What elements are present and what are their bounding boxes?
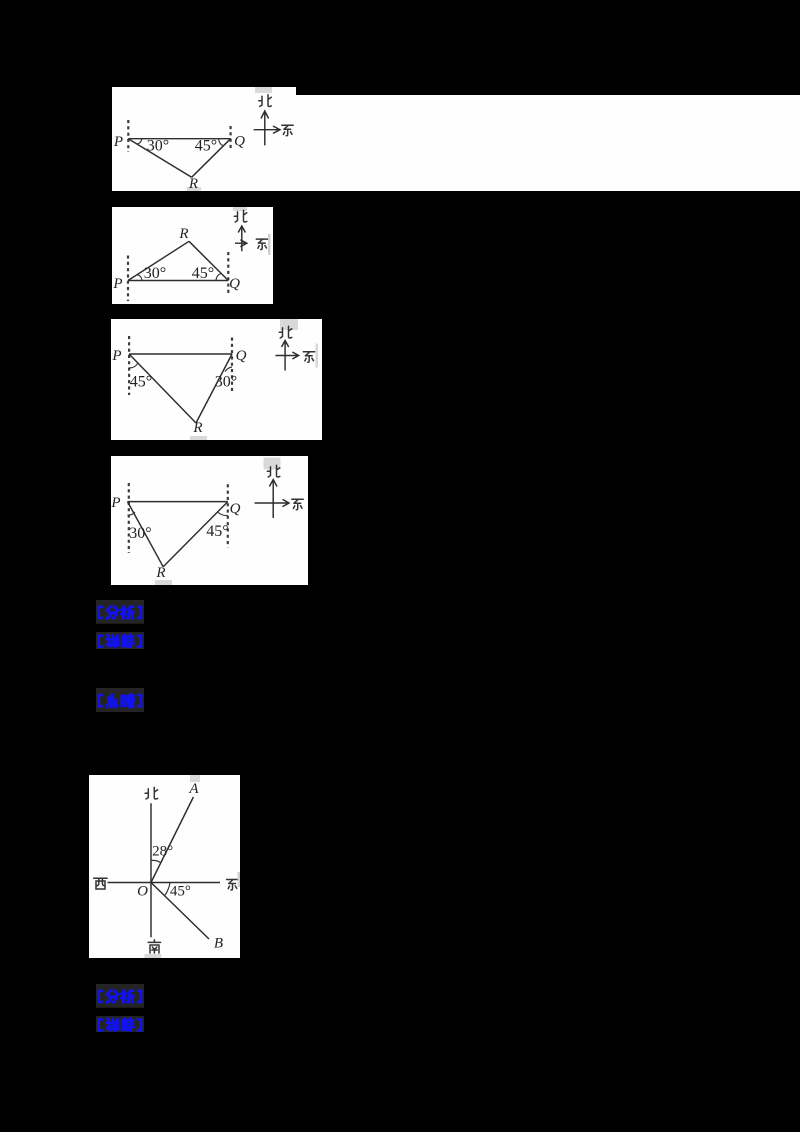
side PR bbox=[129, 354, 196, 423]
grey artifact above north glyph bbox=[255, 87, 272, 93]
side QR bbox=[196, 354, 232, 423]
grey edge artifact at box right bbox=[268, 234, 271, 255]
line PQ bbox=[129, 353, 232, 355]
svg-text:Q: Q bbox=[236, 348, 247, 364]
compass horizontal arrow bbox=[254, 126, 280, 133]
side PR bbox=[128, 502, 164, 567]
compass vertical arrow bbox=[282, 341, 289, 371]
dashed vertical at Q bbox=[231, 338, 233, 394]
dashed vertical at Q bbox=[230, 126, 232, 151]
angle arc at Q bbox=[225, 367, 232, 372]
compass horizontal arrow bbox=[235, 240, 247, 247]
side PR bbox=[128, 139, 191, 178]
side QR bbox=[163, 502, 228, 567]
dashed vertical at P bbox=[128, 336, 130, 395]
svg-text:P: P bbox=[111, 348, 121, 364]
blue tag 4 fenxi bbox=[96, 984, 144, 1008]
grey edge artifact right of east glyph bbox=[316, 344, 319, 368]
side QR bbox=[192, 139, 231, 178]
svg-text:R: R bbox=[188, 176, 198, 191]
grey edge artifact right of east glyph bbox=[237, 872, 240, 887]
svg-text:Q: Q bbox=[234, 134, 245, 150]
south glyph bbox=[148, 940, 160, 953]
figure 2 image box (triangle PQR, R above, 30/45) bbox=[112, 207, 273, 304]
svg-text:45°: 45° bbox=[192, 265, 214, 282]
svg-text:R: R bbox=[192, 420, 202, 436]
grey artifact above north glyph bbox=[280, 319, 298, 330]
compass east glyph bbox=[256, 239, 267, 249]
grey artifact under R bbox=[187, 187, 201, 191]
side PR bbox=[128, 241, 189, 280]
svg-text:45°: 45° bbox=[206, 523, 228, 540]
svg-text:45°: 45° bbox=[130, 374, 152, 391]
line PQ bbox=[128, 138, 230, 140]
svg-text:R: R bbox=[178, 226, 188, 242]
angle arc at P bbox=[137, 139, 142, 144]
angle arc at Q bbox=[219, 139, 224, 146]
line PQ bbox=[128, 501, 228, 503]
compass horizontal arrow bbox=[255, 499, 289, 506]
dashed vertical at P bbox=[128, 483, 130, 553]
grey artifact under nan glyph bbox=[144, 954, 161, 958]
svg-text:45°: 45° bbox=[195, 138, 217, 155]
figure 1 image box (triangle PQR, R below, 30/45) bbox=[112, 87, 296, 191]
figure 4 image box (triangle PQR, R below-left, 30/45) bbox=[111, 456, 308, 585]
grey artifact under R bbox=[155, 580, 172, 585]
axis horizontal (west-east) bbox=[107, 882, 220, 884]
dashed vertical at Q bbox=[227, 484, 229, 547]
svg-text:30°: 30° bbox=[144, 265, 166, 282]
compass vertical arrow bbox=[269, 480, 277, 519]
svg-text:B: B bbox=[213, 936, 222, 952]
grey artifact above north glyph bbox=[233, 207, 247, 211]
east glyph bbox=[226, 880, 237, 890]
blue tag 3 dianjing bbox=[96, 688, 144, 712]
compass north glyph bbox=[259, 95, 272, 107]
angle arc at Q bbox=[216, 274, 221, 281]
svg-text:Q: Q bbox=[230, 501, 241, 517]
svg-text:P: P bbox=[112, 276, 122, 292]
compass north glyph bbox=[267, 465, 280, 477]
svg-text:P: P bbox=[111, 495, 121, 511]
svg-text:R: R bbox=[155, 565, 165, 581]
ray OA bbox=[151, 797, 193, 883]
grey artifact above A bbox=[190, 775, 200, 782]
west glyph bbox=[93, 878, 106, 889]
arc 45deg bbox=[164, 883, 169, 896]
compass north glyph bbox=[234, 210, 247, 222]
figure 5 image box (compass rose with rays OA OB) bbox=[89, 775, 240, 958]
angle arc at P bbox=[137, 275, 142, 281]
line PQ bbox=[128, 280, 228, 282]
dashed vertical at P bbox=[127, 120, 129, 152]
svg-text:28°: 28° bbox=[152, 844, 173, 860]
arc 28deg bbox=[151, 860, 161, 862]
angle arc at Q bbox=[218, 512, 228, 516]
compass east glyph bbox=[303, 352, 314, 362]
grey artifact above north glyph bbox=[264, 458, 281, 470]
north glyph bbox=[145, 787, 158, 799]
grey artifact under R bbox=[190, 436, 207, 440]
compass east glyph bbox=[282, 125, 293, 135]
compass east glyph bbox=[292, 499, 303, 509]
dashed vertical at Q bbox=[227, 252, 229, 293]
blue tag 2 xiangjie bbox=[96, 632, 144, 649]
svg-text:30°: 30° bbox=[215, 374, 237, 391]
svg-text:30°: 30° bbox=[147, 138, 169, 155]
compass vertical arrow bbox=[261, 111, 269, 145]
white strip right of figure 1 bbox=[296, 95, 800, 191]
compass north glyph bbox=[279, 326, 292, 338]
angle arc at P bbox=[128, 512, 136, 515]
blue tag 1 fenxi bbox=[96, 600, 144, 624]
compass vertical arrow bbox=[238, 226, 245, 251]
svg-text:45°: 45° bbox=[169, 884, 190, 900]
svg-text:P: P bbox=[113, 134, 123, 150]
axis vertical (north-south) bbox=[150, 803, 152, 937]
svg-text:30°: 30° bbox=[129, 525, 151, 542]
compass horizontal arrow bbox=[276, 352, 299, 359]
side QR bbox=[189, 241, 228, 280]
ray OB bbox=[151, 883, 209, 940]
blue tag 5 xiangjie bbox=[96, 1016, 144, 1032]
svg-text:O: O bbox=[137, 884, 148, 900]
svg-text:A: A bbox=[188, 781, 199, 797]
angle arc at P bbox=[129, 363, 138, 368]
svg-text:Q: Q bbox=[229, 276, 240, 292]
figure 3 image box (triangle PQR, R below, 45/30) bbox=[111, 319, 322, 440]
defs: compass glyphs + blue answer-tag glyphs bbox=[0, 0, 1, 1]
dashed vertical at P bbox=[127, 256, 129, 302]
